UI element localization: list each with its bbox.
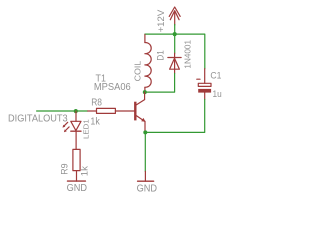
- resistor R8: [88, 108, 134, 113]
- diode D1: [168, 53, 181, 73]
- svg-text:R8: R8: [91, 98, 102, 109]
- wire C1 bottom to emitter junction: [145, 99, 204, 132]
- svg-text:+12V: +12V: [155, 9, 166, 32]
- node emitter junction: [143, 130, 147, 134]
- transistor T1 NPN: [134, 92, 146, 132]
- svg-text:1N4001: 1N4001: [183, 40, 193, 69]
- node junction coil/diode/collector: [143, 90, 147, 94]
- svg-text:1u: 1u: [213, 88, 222, 99]
- svg-text:MPSA06: MPSA06: [94, 82, 131, 93]
- power +12V supply symbol: [169, 7, 180, 25]
- wire +12V stub to rail: [174, 25, 176, 35]
- ground GND right: [138, 171, 154, 181]
- wire net DIGITALOUT3: [37, 110, 88, 112]
- resistor R9: [73, 149, 80, 181]
- svg-text:C1: C1: [210, 70, 221, 81]
- svg-text:COIL: COIL: [133, 61, 143, 82]
- wire diode anode to coil junction: [145, 74, 175, 93]
- svg-text:GND: GND: [137, 183, 157, 194]
- svg-text:1k: 1k: [79, 165, 89, 176]
- svg-text:GND: GND: [67, 183, 87, 194]
- inductor COIL: [145, 35, 151, 93]
- svg-text:1k: 1k: [90, 117, 100, 128]
- node junction +12V rail: [173, 32, 177, 36]
- svg-text:R9: R9: [59, 163, 69, 175]
- wire rail to diode cathode: [174, 34, 176, 53]
- node junction LED/R8: [74, 109, 78, 113]
- wire top rail: [145, 34, 205, 69]
- svg-text:D1: D1: [155, 50, 166, 60]
- svg-text:DIGITALOUT3: DIGITALOUT3: [8, 114, 68, 125]
- LED LED1: [63, 111, 82, 149]
- svg-text:LED1: LED1: [82, 119, 91, 139]
- capacitor C1: [197, 69, 211, 100]
- ground GND left: [68, 180, 86, 182]
- wire emitter to ground: [144, 132, 146, 171]
